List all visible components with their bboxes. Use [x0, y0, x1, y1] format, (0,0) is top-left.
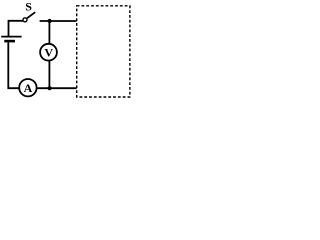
wire: left riser from battery up and right to switch: [9, 21, 24, 36]
voltmeter V: [40, 44, 57, 61]
dashed box: device under test: [77, 6, 130, 97]
wire: ammeter to bottom junction to dashed box: [37, 87, 77, 89]
wire: battery down to ammeter: [8, 43, 19, 89]
ammeter A: [19, 79, 36, 96]
svg-text:A: A: [24, 81, 33, 95]
switch S: [23, 0, 35, 22]
wire: voltmeter branch upper: [48, 21, 50, 45]
wire: voltmeter branch lower: [48, 61, 50, 89]
svg-text:V: V: [44, 45, 53, 59]
node: bottom junction: [48, 86, 52, 90]
wire: switch to top junction to dashed box: [40, 20, 77, 22]
battery cell: [1, 37, 21, 42]
node: top junction: [48, 19, 52, 23]
svg-text:S: S: [25, 0, 32, 13]
